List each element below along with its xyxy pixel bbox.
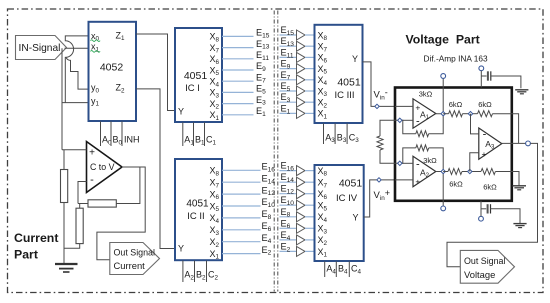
- wire IN-Signal to x1 input: [65, 47, 89, 49]
- node E7 connector to IC III input: [280, 70, 315, 85]
- wire IC II X3 to node E6: [222, 229, 261, 231]
- resistor 6k A3 noninverting to ground: [470, 169, 519, 186]
- node E13 connector to IC III input: [280, 36, 315, 51]
- wire A3 inverting input: [471, 114, 479, 134]
- node E8 connector to IC IV input: [280, 207, 315, 222]
- node E15 connector to IC III input: [280, 25, 315, 40]
- resistor R2 inverting input to ground: [64, 204, 83, 249]
- svg-text:-: -: [90, 174, 94, 186]
- IC I pin B1: [194, 122, 206, 146]
- IC II pin B2: [195, 261, 207, 282]
- svg-text:4051: 4051: [184, 70, 208, 82]
- svg-text:Voltage Part: Voltage Part: [406, 33, 480, 47]
- node E2 connector to IC IV input: [280, 241, 315, 256]
- svg-text:-: -: [416, 115, 420, 127]
- IC I pin A1: [183, 122, 195, 146]
- wire A1 output / top terminal: [436, 78, 443, 113]
- svg-text:IC II: IC II: [187, 211, 204, 222]
- multiplexer U3 4051 IC II: [175, 159, 222, 261]
- terminal circle output: [526, 141, 531, 146]
- op-amp A1: [413, 99, 436, 128]
- IN-Signal input tag: [16, 36, 67, 60]
- wire A1 noninverting input: [395, 105, 413, 107]
- svg-text:4051: 4051: [337, 77, 361, 89]
- wire IC I X7 to node E13: [222, 47, 254, 49]
- svg-text:Y: Y: [178, 244, 184, 254]
- IC II pin A2: [183, 261, 195, 282]
- wire IC II X8 to node E16: [222, 169, 261, 171]
- terminal circle V- supply: [479, 201, 484, 221]
- svg-text:IC IV: IC IV: [336, 193, 358, 204]
- node E9 connector to IC III input: [280, 59, 315, 74]
- op-amp A2: [413, 156, 436, 186]
- IC IV pin A4: [325, 261, 337, 277]
- resistor 6k A2 output to A3 noninverting: [443, 169, 470, 175]
- capacitor C2 V- decoupling: [481, 204, 520, 223]
- terminal circle V+ supply: [479, 66, 484, 88]
- 4052 pin INH: [122, 121, 140, 146]
- svg-text:Y: Y: [178, 107, 184, 117]
- wire IC I X5 to node E9: [222, 69, 254, 71]
- node E14 connector to IC IV input: [280, 172, 315, 187]
- op-amp A3: [479, 128, 502, 159]
- svg-text:Voltage: Voltage: [464, 269, 495, 280]
- wire IC I X2 to node E3: [222, 103, 254, 105]
- wire Z1 to IC I Y: [136, 34, 175, 111]
- node E1 connector to IC III input: [280, 103, 315, 118]
- wire IC IV Y to Vin+: [364, 180, 395, 217]
- wire IC I X6 to node E11: [222, 58, 254, 60]
- amplifier U6 INA163 outer box: [395, 88, 512, 201]
- svg-text:Out Signal: Out Signal: [114, 248, 155, 258]
- wire A3 output: [502, 142, 526, 144]
- wire IC II X2 to node E4: [222, 241, 261, 243]
- title Current Part: [14, 231, 58, 261]
- wire A3 noninverting input: [470, 153, 479, 172]
- node E6 connector to IC IV input: [280, 218, 315, 233]
- multiplexer U5 4051 IC IV: [315, 165, 364, 261]
- feedback resistor Rf: [78, 167, 140, 207]
- node E12 connector to IC IV input: [280, 184, 315, 199]
- resistor 3k feedback A1: [400, 114, 443, 137]
- svg-text:3kΩ: 3kΩ: [423, 156, 437, 165]
- IC III pin C3: [347, 123, 359, 144]
- svg-text:6kΩ: 6kΩ: [449, 179, 463, 188]
- resistor RG gain-set between A1- and A2-: [377, 120, 400, 163]
- wire op-amp output to Out Signal Current tag: [97, 167, 145, 260]
- junction diamond top row: [468, 112, 472, 116]
- wire IC I X4 to node E7: [222, 80, 254, 82]
- svg-text:+: +: [415, 177, 420, 187]
- svg-text:Y: Y: [352, 54, 358, 64]
- wire A2 output / bottom terminal: [436, 172, 443, 207]
- svg-text:IC III: IC III: [334, 90, 354, 101]
- IC I pin C1: [205, 122, 217, 146]
- wire IC II X4 to node E8: [222, 217, 261, 219]
- IC IV pin B4: [336, 261, 348, 277]
- svg-text:C to V: C to V: [90, 162, 115, 172]
- Out Signal Current tag: [110, 243, 160, 275]
- junction diamond A1 inverting node: [398, 118, 402, 122]
- junction diamond bottom row: [468, 169, 472, 173]
- junction diamond Vin-: [375, 104, 379, 108]
- wire op-amp noninverting input: [62, 149, 87, 151]
- wire IC I X8 to node E15: [222, 35, 254, 37]
- terminal circle A1 output sense: [441, 74, 446, 79]
- svg-text:+: +: [482, 149, 487, 159]
- svg-text:6kΩ: 6kΩ: [478, 100, 492, 109]
- ground for C1: [515, 90, 528, 94]
- node E4 connector to IC IV input: [280, 230, 315, 245]
- capacitor C1 V+ decoupling: [481, 71, 521, 88]
- svg-text:4051: 4051: [186, 199, 209, 210]
- svg-text:Part: Part: [14, 247, 38, 261]
- IC III pin B3: [335, 123, 347, 144]
- wire IC I X3 to node E5: [222, 91, 254, 93]
- node E16 connector to IC IV input: [280, 161, 315, 176]
- divider between current part and voltage part: [274, 11, 278, 292]
- wire to y0 input: [66, 57, 89, 89]
- svg-text:Current: Current: [114, 260, 146, 271]
- svg-text:Y: Y: [352, 212, 358, 222]
- wire IC II X6 to node E12: [222, 193, 261, 195]
- IC IV pin C4: [349, 261, 361, 277]
- spellcheck squiggle under x0: [91, 40, 101, 42]
- wire A2 noninverting input: [395, 179, 413, 181]
- wire output to Out Signal Voltage tag: [447, 143, 538, 266]
- wire IC III Y to Vin-: [363, 62, 396, 107]
- IC II pin C2: [207, 261, 219, 282]
- svg-text:4051: 4051: [339, 178, 363, 190]
- 4052 pin B0: [111, 121, 123, 146]
- junction diamond Vin+: [377, 178, 381, 182]
- junction diamond A2 output: [441, 169, 445, 173]
- wire IC I X1 to node E1: [222, 114, 254, 116]
- junction diamond A2 inverting node: [398, 161, 402, 165]
- node E10 connector to IC IV input: [280, 195, 315, 210]
- svg-text:6kΩ: 6kΩ: [483, 183, 497, 192]
- svg-text:Current: Current: [14, 231, 58, 245]
- junction diamond A1 output: [441, 112, 445, 116]
- terminal circle A2 output sense: [441, 206, 446, 211]
- wire A2 inverting input: [400, 162, 413, 164]
- op-amp C to V current-to-voltage converter: [87, 142, 123, 193]
- wire IC II X7 to node E14: [222, 181, 261, 183]
- svg-text:4052: 4052: [100, 61, 124, 73]
- svg-text:INH: INH: [124, 135, 140, 145]
- ground for 6k resistor: [512, 186, 526, 190]
- resistor 6k A3 feedback: [471, 111, 519, 144]
- multiplexer U1 4052: [89, 22, 137, 121]
- ground for C2: [513, 224, 526, 228]
- wire op-amp inverting input: [78, 182, 87, 204]
- svg-text:IC I: IC I: [185, 83, 200, 94]
- svg-text:+: +: [89, 148, 95, 159]
- svg-text:Dif.-Amp INA 163: Dif.-Amp INA 163: [424, 53, 488, 63]
- wire IN-Signal to x0 input with bus and crossover hops: [65, 36, 88, 103]
- node E3 connector to IC III input: [280, 92, 315, 107]
- resistor 3k feedback A2: [400, 145, 443, 172]
- svg-text:Out Signal: Out Signal: [464, 256, 505, 266]
- spellcheck squiggle under x1: [91, 51, 101, 53]
- node E11 connector to IC III input: [280, 47, 315, 62]
- resistor 6k A1 output to A3 inverting: [443, 111, 470, 117]
- ground for R1: [55, 264, 78, 272]
- Out Signal Voltage tag: [460, 250, 514, 283]
- svg-text:6kΩ: 6kΩ: [449, 100, 463, 109]
- IC III pin A3: [324, 123, 336, 144]
- multiplexer U2 4051 IC I: [175, 28, 222, 122]
- resistor R1 input to ground: [61, 150, 68, 264]
- node E5 connector to IC III input: [280, 81, 315, 96]
- svg-text:IN-Signal: IN-Signal: [19, 43, 61, 54]
- wire to y1 input: [62, 48, 89, 150]
- 4052 pin A0: [101, 121, 113, 146]
- svg-text:3kΩ: 3kΩ: [419, 89, 433, 98]
- wire IC II X1 to node E2: [222, 253, 261, 255]
- wire Z2 to IC II Y: [136, 89, 175, 249]
- wire IC II X5 to node E10: [222, 205, 261, 207]
- wire A1 inverting input: [400, 119, 413, 121]
- multiplexer U4 4051 IC III: [315, 25, 363, 123]
